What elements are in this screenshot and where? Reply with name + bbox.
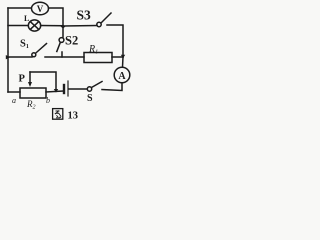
wire left rail <box>7 8 9 92</box>
wire b terminal to battery <box>46 91 63 92</box>
junction wiper bottom <box>54 89 58 93</box>
junction arrow left rail <box>6 55 10 59</box>
battery <box>64 81 68 96</box>
node junction <box>60 26 66 29</box>
wire lamp row left <box>8 25 28 27</box>
ammeter A <box>114 67 130 83</box>
wire ammeter down to bottom corner <box>102 83 122 91</box>
lamp L <box>28 20 40 31</box>
wire top rail to voltmeter <box>8 7 31 9</box>
svg-text:S2: S2 <box>65 34 78 48</box>
switch S <box>87 82 102 92</box>
wire S1 row left <box>8 56 32 58</box>
svg-text:13: 13 <box>68 111 79 122</box>
junction right rail <box>121 55 125 59</box>
resistor R1 <box>84 53 112 63</box>
caption 图 (drawn) <box>53 109 63 120</box>
svg-text:a: a <box>12 96 16 105</box>
switch S3 <box>97 13 111 27</box>
svg-text:S3: S3 <box>77 8 92 23</box>
wire lamp to node <box>41 25 63 27</box>
wire voltmeter to corner <box>49 8 64 25</box>
svg-text:S: S <box>87 93 93 104</box>
svg-text:L: L <box>24 14 29 23</box>
switch S2 vertical <box>57 26 64 57</box>
wire battery to switch S <box>69 88 87 90</box>
voltmeter V <box>32 2 49 15</box>
wiper arrow <box>28 72 32 87</box>
wire S3 right down right rail <box>107 25 123 57</box>
wire node to S3 <box>63 25 97 28</box>
svg-text:P: P <box>19 74 26 85</box>
wiper arm P wire <box>30 72 56 91</box>
switch S1 <box>32 44 47 57</box>
svg-text:b: b <box>46 96 50 105</box>
rheostat R2 <box>20 88 46 98</box>
wire left rail to a terminal <box>8 91 20 93</box>
svg-text:A: A <box>118 71 126 82</box>
wire down to ammeter <box>122 57 125 67</box>
svg-text:V: V <box>37 4 44 14</box>
wire R1 to right rail junction <box>112 56 123 58</box>
wire S1 to R1 <box>45 56 84 58</box>
